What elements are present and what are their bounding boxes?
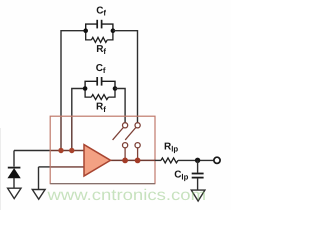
- wire: Clp to ground: [197, 178, 199, 190]
- svg-text:Clp: Clp: [174, 169, 188, 181]
- wire: feedback network 2 left lead down to summing node: [72, 89, 85, 117]
- resistor Rf (network 2): [85, 89, 115, 100]
- switch S1 (left): [113, 123, 128, 161]
- wire: Rlp to output terminal: [178, 159, 214, 161]
- node: summing junction dot 1: [58, 148, 63, 153]
- node: network 1 left: [83, 28, 88, 33]
- amplifier block outline bottom edge shading: [50, 183, 155, 185]
- ground (photodiode): [8, 188, 21, 198]
- wire: inverting input line from photodiode to op-amp: [14, 150, 85, 152]
- wire: photodiode branch drop: [13, 151, 15, 167]
- svg-text:Cf: Cf: [96, 63, 106, 75]
- resistor Rf (network 1): [86, 31, 113, 43]
- ground (non-inverting input): [32, 190, 45, 200]
- node: output junction: [195, 158, 200, 163]
- capacitor Cf (network 1): [86, 20, 113, 31]
- node: network 1 right: [111, 28, 116, 33]
- svg-text:www.cntronics.com: www.cntronics.com: [46, 187, 206, 204]
- amplifier block outline U1: [50, 116, 155, 183]
- ground (Clp): [191, 190, 205, 201]
- svg-text:Rf: Rf: [96, 102, 106, 114]
- op-amp A1: [84, 145, 111, 176]
- photodiode D1: [8, 168, 21, 178]
- wire: network 1 left lead inside block: [60, 116, 62, 150]
- wire: photodiode to ground: [13, 178, 15, 189]
- edge artifact line: [0, 128, 2, 210]
- wire: network 2 left lead inside block: [71, 116, 73, 150]
- switch S2 (right): [125, 123, 140, 161]
- node: summing junction dot 2: [69, 148, 74, 153]
- wire: output line inside block: [110, 159, 155, 161]
- wire: feedback network 1 left lead down to summing node: [61, 31, 86, 117]
- resistor Rlp: [161, 158, 178, 163]
- wire: non-inverting input drop to ground: [38, 167, 40, 190]
- svg-text:Cf: Cf: [96, 5, 106, 17]
- capacitor Clp: [192, 174, 204, 178]
- output terminal: [214, 157, 220, 163]
- node: network 2 right: [113, 86, 118, 91]
- node: switch S2 output junction: [135, 158, 141, 164]
- wire: output line to Rlp: [155, 159, 161, 161]
- svg-text:Rf: Rf: [96, 44, 106, 56]
- wire: network 1 right lead down to switch S2: [113, 31, 138, 123]
- node: network 2 left: [83, 86, 88, 91]
- wire: network 2 right lead down to switch S1: [115, 89, 125, 123]
- capacitor Cf (network 2): [85, 77, 115, 89]
- svg-text:Rlp: Rlp: [164, 141, 178, 153]
- node: switch S1 output junction: [122, 158, 128, 164]
- wire: junction down to Clp: [197, 160, 199, 172]
- wire: non-inverting input line: [39, 166, 85, 168]
